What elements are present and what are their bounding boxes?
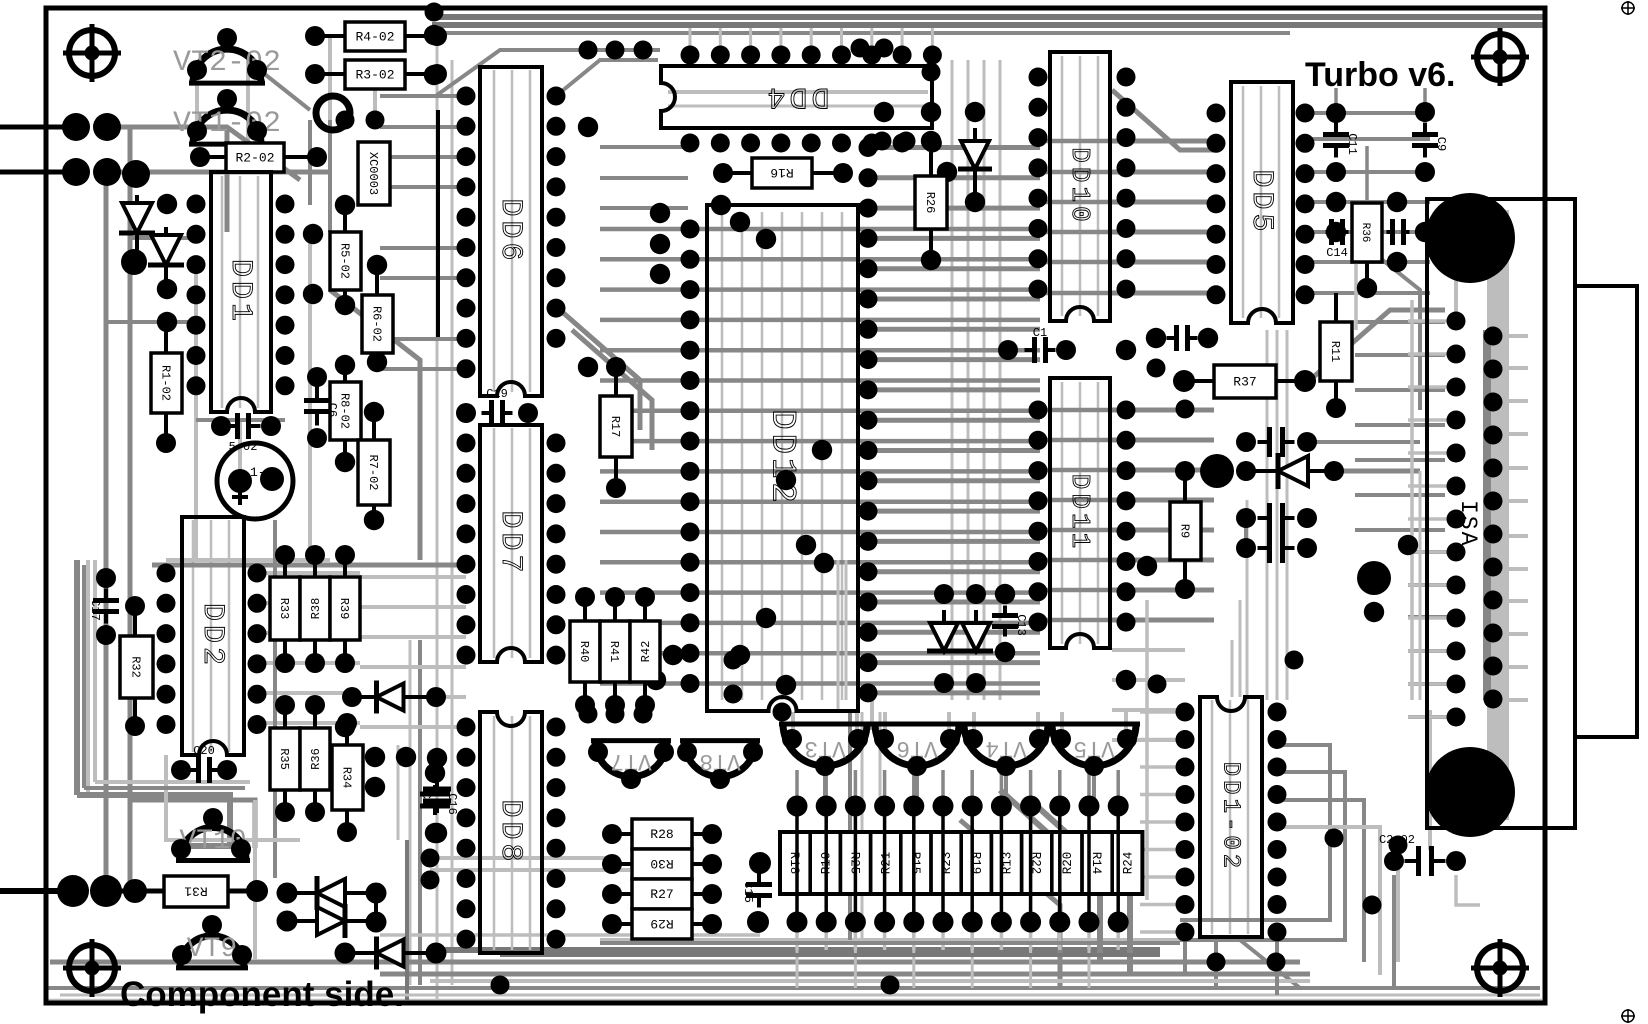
svg-text:DD1: DD1 bbox=[223, 259, 257, 325]
svg-text:R30: R30 bbox=[650, 856, 673, 871]
resistor R4-02 bbox=[345, 22, 405, 51]
pad VD cathode bbox=[121, 249, 147, 275]
svg-text:XC0003: XC0003 bbox=[366, 152, 380, 195]
pads R33 R38 R39 top bbox=[275, 545, 355, 565]
pads DD4 top row bbox=[681, 46, 942, 65]
svg-text:R18: R18 bbox=[787, 852, 801, 875]
mounting hole bottom-left bbox=[63, 939, 121, 997]
connector XS1 body bbox=[1427, 199, 1575, 828]
pads DD1 left bbox=[187, 195, 206, 396]
pads R28 stack right bbox=[702, 824, 722, 934]
capacitor C16 bbox=[420, 785, 459, 815]
svg-text:R42: R42 bbox=[639, 641, 653, 663]
resistor R3-02 bbox=[345, 60, 405, 89]
resistor R29 bbox=[632, 909, 692, 939]
pads VT4 bbox=[963, 729, 1049, 776]
pads VD8 area bbox=[1175, 432, 1344, 558]
pads VD6 VD7 bottom bbox=[934, 673, 986, 693]
wire R31 leads bbox=[106, 889, 164, 894]
diode VD2-02 bbox=[148, 227, 184, 290]
pads R40 pack top bbox=[575, 587, 655, 607]
pads DD1-02 right bbox=[1268, 703, 1287, 942]
pads R35 R36 bottom bbox=[275, 802, 325, 822]
diode VD10 bbox=[287, 904, 376, 938]
svg-text:R37: R37 bbox=[1233, 375, 1256, 390]
pads C18 bbox=[427, 748, 447, 843]
IC DD1-02 bbox=[1200, 697, 1262, 937]
capacitor C19 bbox=[482, 387, 513, 426]
pads R31 bbox=[123, 879, 147, 903]
svg-text:C9: C9 bbox=[1434, 137, 1448, 151]
transistor VT4 bbox=[960, 724, 1052, 766]
pads power in second bbox=[62, 158, 150, 188]
svg-text:R19: R19 bbox=[968, 852, 982, 875]
resistor R5-02 bbox=[330, 232, 361, 290]
wires R35 R36 bbox=[283, 705, 287, 728]
svg-text:DD4: DD4 bbox=[763, 79, 829, 113]
wire RC cluster bbox=[1365, 262, 1369, 288]
svg-text:R27: R27 bbox=[650, 887, 673, 902]
pads C20 bbox=[171, 760, 237, 780]
transistor VT3 bbox=[779, 724, 871, 766]
resistor R27 bbox=[632, 879, 692, 909]
pads strip bottom bbox=[787, 912, 1129, 933]
pads R37 bbox=[1173, 370, 1316, 392]
pads CPU inner bbox=[711, 195, 834, 695]
resistor R9 bbox=[1170, 502, 1201, 560]
wires R33 pack bbox=[283, 555, 287, 577]
svg-text:C13: C13 bbox=[1014, 614, 1028, 636]
svg-text:C17: C17 bbox=[88, 599, 102, 621]
pads DD2 right bbox=[248, 564, 267, 735]
pads VD1b bbox=[335, 943, 447, 964]
pads CPU right column bbox=[859, 138, 878, 702]
pads DD6 right bbox=[547, 87, 566, 348]
pads VD1a bbox=[342, 687, 446, 707]
wire R7-02 leads bbox=[372, 412, 376, 440]
pads DD1 right bbox=[276, 195, 295, 396]
registration mark top-right bbox=[1621, 1, 1635, 15]
pads C2-02 bbox=[1384, 851, 1466, 871]
pads VD9 VD10 bbox=[277, 883, 387, 933]
resistor R26 bbox=[915, 176, 947, 229]
capacitor C17 bbox=[88, 589, 119, 624]
svg-text:R28: R28 bbox=[650, 827, 673, 842]
resistor R30 bbox=[632, 849, 692, 879]
pads R28 stack left bbox=[602, 824, 622, 934]
crystal ring bbox=[316, 96, 350, 130]
pads C19 bbox=[456, 403, 538, 423]
resistor R38 bbox=[300, 577, 330, 640]
pads C5-02 bbox=[211, 416, 281, 436]
capacitor C2-02 bbox=[1379, 833, 1446, 876]
connector hole bottom bbox=[1425, 747, 1515, 837]
pads VT3 bbox=[782, 729, 868, 776]
pads DD11 aux bbox=[1116, 340, 1157, 690]
pads near blob2 bbox=[1364, 535, 1418, 622]
svg-text:DD8: DD8 bbox=[493, 799, 527, 865]
resistor R42 bbox=[630, 621, 660, 682]
capacitor C9 bbox=[1412, 123, 1448, 158]
pads misc left-bottom bbox=[335, 717, 445, 843]
svg-text:R7-02: R7-02 bbox=[366, 454, 380, 490]
svg-text:DD5: DD5 bbox=[1244, 169, 1278, 235]
wire power in second bbox=[0, 170, 76, 175]
svg-text:5-02: 5-02 bbox=[229, 440, 258, 454]
svg-text:R2-02: R2-02 bbox=[235, 151, 274, 166]
pads DD6 aux bbox=[424, 25, 622, 454]
pads DD4 aux right bbox=[874, 102, 957, 182]
svg-text:R29: R29 bbox=[650, 916, 673, 931]
svg-text:R34: R34 bbox=[340, 767, 354, 789]
pads R2-02 bbox=[190, 147, 327, 167]
pads DD8 right bbox=[547, 718, 566, 949]
resistor R16 bbox=[752, 158, 812, 188]
wire R9 leads bbox=[1183, 471, 1187, 502]
pads DD5 left bbox=[1207, 104, 1226, 305]
pads DD11 left bbox=[1029, 401, 1048, 632]
pads R35 R36 top bbox=[275, 695, 325, 715]
resistor R11 bbox=[1320, 322, 1352, 381]
transistor VT8 bbox=[680, 741, 760, 777]
connector hole top bbox=[1425, 193, 1515, 283]
diode VD8 bbox=[1246, 453, 1334, 489]
svg-text:VT9: VT9 bbox=[187, 934, 237, 965]
pads DD1 extra bbox=[157, 194, 323, 332]
pads C8 bbox=[1146, 328, 1218, 348]
wire R34 leads bbox=[345, 723, 349, 745]
svg-text:R26: R26 bbox=[923, 192, 937, 214]
IC DD1 bbox=[211, 172, 271, 412]
connector pin column right bbox=[1484, 327, 1503, 709]
pads DD7 right bbox=[547, 434, 566, 665]
pad R1-02 bottom bbox=[156, 433, 176, 453]
capacitor C18 bbox=[419, 777, 451, 813]
capacitor C11 bbox=[1323, 123, 1359, 158]
svg-text:C19: C19 bbox=[486, 387, 508, 401]
pads R5-R8 cluster bbox=[335, 195, 387, 530]
capacitor C22 bbox=[1258, 533, 1295, 563]
resistor R36b bbox=[1352, 203, 1382, 262]
resistor R41 bbox=[600, 621, 630, 682]
pads C15 bbox=[747, 852, 771, 933]
pads VT5 bbox=[1051, 729, 1137, 776]
svg-text:R3-02: R3-02 bbox=[355, 68, 394, 83]
IC DD12 (CPU) bbox=[707, 205, 858, 711]
pads power in bottom bbox=[57, 875, 122, 907]
IC DD5 bbox=[1231, 82, 1293, 323]
svg-text:DD11: DD11 bbox=[1065, 474, 1095, 552]
svg-text:C6: C6 bbox=[325, 403, 339, 417]
svg-text:R1-02: R1-02 bbox=[159, 365, 173, 401]
svg-text:C14: C14 bbox=[1326, 246, 1348, 260]
wire R8-02 leads bbox=[343, 365, 347, 382]
pads CPU left aux bbox=[646, 203, 683, 690]
pads DD10 left bbox=[1029, 68, 1048, 299]
svg-text:R6-02: R6-02 bbox=[370, 306, 384, 342]
pads DD10 right bbox=[1117, 68, 1136, 299]
resistor R33 bbox=[270, 577, 300, 640]
svg-text:R11: R11 bbox=[1328, 341, 1342, 363]
resistor R32 bbox=[120, 636, 153, 698]
svg-text:ISA: ISA bbox=[1455, 500, 1481, 547]
svg-text:C16: C16 bbox=[445, 793, 459, 815]
wires resistor strip bbox=[795, 806, 799, 922]
wire R16 leads bbox=[723, 171, 752, 175]
transistor VT2-02 bbox=[173, 46, 281, 83]
pads C10b bbox=[998, 340, 1076, 360]
pads power in top bbox=[62, 113, 121, 141]
svg-text:R17: R17 bbox=[608, 416, 622, 438]
svg-text:Component side.: Component side. bbox=[120, 975, 404, 1014]
transistor VT1-02 bbox=[173, 107, 281, 144]
svg-text:R36: R36 bbox=[1359, 223, 1371, 243]
pads R26 bbox=[921, 131, 941, 270]
pads C6 bbox=[307, 367, 327, 448]
capacitor C10b bbox=[1025, 326, 1056, 363]
wire R11 leads bbox=[1334, 293, 1338, 322]
transistor VT10 bbox=[176, 826, 250, 860]
svg-text:R32: R32 bbox=[129, 656, 143, 678]
pads VD6 VD7 top bbox=[934, 584, 986, 604]
registration mark bottom-right bbox=[1621, 1009, 1635, 1023]
capacitor C5-02 bbox=[226, 413, 261, 454]
IC DD10 bbox=[1050, 52, 1110, 321]
resistor R7-02 bbox=[358, 440, 390, 505]
svg-text:R36: R36 bbox=[309, 748, 323, 770]
pads VT8 bbox=[677, 742, 763, 789]
svg-text:1-: 1- bbox=[250, 465, 266, 480]
pads R17 bbox=[606, 357, 626, 498]
pads C9 bbox=[1415, 102, 1435, 182]
diode VD7 bbox=[959, 610, 993, 651]
resistor R1-02 bbox=[151, 353, 182, 413]
resistor network R13-R25 strip bbox=[780, 832, 1142, 894]
pads CPU left column bbox=[681, 220, 700, 694]
wire R17 leads bbox=[614, 367, 618, 396]
svg-text:DD10: DD10 bbox=[1065, 147, 1095, 225]
transistor VT9 bbox=[176, 934, 248, 968]
svg-text:R41: R41 bbox=[607, 641, 621, 663]
svg-text:R21: R21 bbox=[880, 852, 894, 875]
svg-text:DD7: DD7 bbox=[493, 510, 527, 576]
IC DD7 bbox=[480, 425, 542, 662]
solder blob bbox=[1200, 454, 1234, 488]
wire R3-02 leads bbox=[315, 72, 345, 76]
wire R37 leads bbox=[1184, 379, 1214, 383]
pads DD8 left bbox=[457, 718, 476, 949]
pads VT10 bbox=[171, 808, 251, 859]
pads R11 bbox=[1326, 398, 1346, 418]
pads VT7 bbox=[588, 742, 674, 789]
svg-text:DD6: DD6 bbox=[493, 198, 527, 264]
svg-text:R20: R20 bbox=[1061, 852, 1075, 875]
capacitor C20 bbox=[187, 744, 222, 783]
pads RC cluster bbox=[1326, 192, 1435, 298]
connector pin column left bbox=[1447, 312, 1466, 727]
resistor R6-02 bbox=[362, 295, 393, 353]
svg-text:R39: R39 bbox=[337, 598, 351, 620]
pads R40 pack bottom bbox=[575, 695, 655, 715]
svg-text:Turbo v6.: Turbo v6. bbox=[1305, 56, 1456, 94]
solder blob 2 bbox=[1357, 561, 1391, 595]
svg-text:R4-02: R4-02 bbox=[355, 30, 394, 45]
crystal XC0003 bbox=[358, 142, 390, 205]
pads DD11 right bbox=[1117, 401, 1136, 632]
wire R4-02 leads bbox=[315, 34, 345, 38]
pads R3-02 bbox=[305, 64, 447, 84]
pads DD1-02 left bbox=[1176, 703, 1195, 942]
transistor VT6 bbox=[871, 724, 963, 766]
resistor R40 bbox=[570, 621, 600, 682]
pads R34 bbox=[337, 713, 357, 842]
IC DD4 bbox=[661, 66, 932, 128]
svg-text:DD12: DD12 bbox=[763, 409, 801, 507]
wire R6-02 leads bbox=[375, 265, 379, 295]
svg-text:R5-02: R5-02 bbox=[338, 243, 352, 279]
wires R40 pack bbox=[583, 597, 587, 621]
pads DD7 left bbox=[457, 434, 476, 665]
pads DD6 left bbox=[457, 87, 476, 379]
resistor R2-02 bbox=[226, 143, 284, 172]
diode VD6 bbox=[927, 610, 961, 651]
wire R5-02 leads bbox=[343, 205, 347, 232]
pad R31 right bbox=[246, 880, 268, 902]
svg-text:DD1-02: DD1-02 bbox=[1217, 762, 1244, 872]
diode VD9 bbox=[287, 876, 376, 910]
diode VD5 bbox=[958, 128, 992, 202]
svg-text:DD2: DD2 bbox=[195, 603, 229, 669]
mounting hole bottom-right bbox=[1471, 939, 1529, 997]
wires VD9 VD10 bbox=[374, 893, 378, 922]
pads R33 R38 R39 bottom bbox=[275, 653, 355, 673]
capacitor C8 bbox=[1167, 325, 1198, 351]
misc vias bbox=[336, 3, 1408, 995]
connector XS1 extension bbox=[1575, 286, 1637, 737]
svg-text:R33: R33 bbox=[277, 598, 291, 620]
capacitor C12 bbox=[1387, 219, 1410, 245]
pads VT2-02 bbox=[187, 28, 267, 80]
pads C11 bbox=[1326, 103, 1346, 182]
svg-text:C11: C11 bbox=[1345, 133, 1359, 155]
mounting hole top-right bbox=[1471, 28, 1529, 86]
resistor R37 bbox=[1214, 365, 1276, 398]
resistor R17 bbox=[600, 396, 632, 457]
wires R28 stack bbox=[612, 832, 632, 836]
wire R26 leads bbox=[929, 141, 933, 176]
transistor VT5 bbox=[1048, 724, 1140, 766]
capacitor C15 bbox=[741, 873, 772, 908]
IC DD11 bbox=[1050, 378, 1110, 648]
svg-text:R14: R14 bbox=[1089, 852, 1103, 875]
pads VD5 bbox=[965, 102, 985, 212]
wire R1-02 leads bbox=[164, 322, 168, 353]
capacitor C21 bbox=[1258, 503, 1295, 533]
svg-text:C1: C1 bbox=[419, 792, 433, 806]
mounting hole top-left bbox=[63, 24, 121, 82]
svg-text:R9: R9 bbox=[1178, 524, 1192, 538]
resistor R31 bbox=[164, 876, 228, 907]
pads R4-02 bbox=[305, 26, 447, 46]
diode VD1a bbox=[352, 681, 436, 714]
resistor R39 bbox=[330, 577, 360, 640]
resistor R35 bbox=[270, 728, 300, 790]
wire R32 leads bbox=[133, 606, 137, 636]
capacitor C1-02 (electrolytic) bbox=[217, 443, 293, 519]
pads VT1-02 bbox=[187, 89, 267, 141]
svg-text:R31: R31 bbox=[184, 884, 208, 899]
wire power in top bbox=[0, 125, 76, 130]
IC DD8 bbox=[480, 712, 542, 953]
svg-text:R40: R40 bbox=[577, 641, 591, 663]
svg-text:C15: C15 bbox=[741, 881, 755, 903]
wire power in bottom bbox=[0, 888, 73, 894]
pads VT9 bbox=[172, 915, 252, 965]
svg-text:R24: R24 bbox=[1121, 852, 1135, 875]
svg-text:R16: R16 bbox=[770, 165, 793, 180]
resistor R8-02 bbox=[330, 382, 361, 440]
pads R32 bbox=[125, 596, 145, 736]
diode VD1-02 bbox=[119, 195, 155, 250]
transistor VT7 bbox=[591, 741, 671, 777]
pad R9 bottom bbox=[1175, 579, 1195, 599]
resistor R28 bbox=[632, 819, 692, 849]
IC DD2 bbox=[182, 517, 244, 755]
resistor R36 bbox=[300, 728, 330, 790]
svg-text:R38: R38 bbox=[309, 598, 323, 620]
capacitor C13 bbox=[992, 606, 1028, 637]
pads VT6 bbox=[874, 729, 960, 776]
pads DD5 right bbox=[1296, 104, 1315, 305]
pads DD4 bottom row bbox=[681, 134, 942, 153]
capacitor C10 bbox=[1258, 427, 1295, 457]
pads R16 bbox=[713, 163, 853, 183]
svg-text:C20: C20 bbox=[193, 744, 215, 758]
capacitor C6 bbox=[304, 387, 339, 426]
wire R2-02 leads bbox=[200, 155, 226, 159]
diode VD1b bbox=[345, 937, 436, 970]
resistor R34 bbox=[332, 745, 363, 810]
svg-text:C1: C1 bbox=[1033, 326, 1047, 340]
pads C13 bbox=[995, 584, 1015, 662]
svg-text:R35: R35 bbox=[277, 748, 291, 770]
pads strip top bbox=[787, 796, 1129, 817]
pads DD2 left bbox=[157, 564, 176, 735]
IC DD6 bbox=[480, 67, 542, 396]
pads C17 bbox=[96, 568, 116, 645]
capacitor C14 bbox=[1326, 219, 1349, 260]
